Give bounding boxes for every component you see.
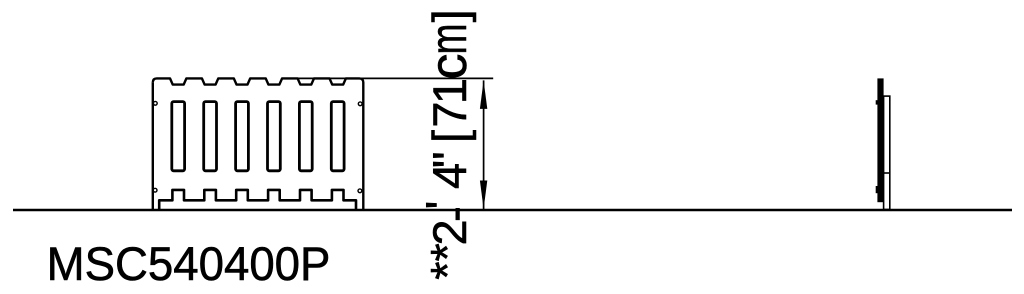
svg-text:[: [	[423, 130, 476, 143]
dimension arrowhead top	[480, 80, 487, 109]
side view post tick	[884, 172, 890, 174]
screw hole upper-left	[153, 101, 157, 105]
svg-text:]: ]	[423, 9, 476, 22]
svg-text:2: 2	[423, 219, 476, 245]
screw hole lower-right	[358, 189, 362, 193]
panel front view: left edge	[152, 82, 154, 210]
svg-text:": "	[423, 151, 476, 168]
panel front view: castellated top edge and right edge	[153, 78, 363, 210]
slot S4	[268, 102, 281, 171]
slot S5	[299, 102, 312, 171]
svg-text:': '	[416, 201, 469, 210]
ground line	[13, 209, 1012, 211]
svg-text:m: m	[420, 24, 478, 55]
svg-text:MSC540400P: MSC540400P	[47, 237, 331, 290]
panel front view: bottom wave profile with feet	[159, 190, 356, 210]
svg-text:1: 1	[423, 78, 476, 104]
svg-text:7: 7	[423, 101, 476, 127]
side view panel thick bar	[877, 78, 883, 202]
side view post outline	[884, 96, 890, 209]
slot S2	[204, 102, 217, 171]
dimension line vertical	[483, 80, 485, 209]
screw hole lower-left	[153, 188, 157, 192]
slot S3	[236, 102, 249, 171]
dimension text **2'-4" [71cm] (rotated, per-glyph placement)	[416, 9, 480, 280]
slot S1	[172, 102, 185, 171]
dimension extension line	[282, 77, 494, 79]
screw hole upper-right	[358, 102, 362, 106]
side view screw bump bottom	[876, 186, 878, 193]
dimension arrowhead bottom	[480, 181, 487, 210]
side view screw bump top	[876, 100, 878, 104]
svg-text:**: **	[421, 243, 474, 280]
svg-text:c: c	[420, 54, 478, 80]
slot S6	[331, 102, 344, 171]
